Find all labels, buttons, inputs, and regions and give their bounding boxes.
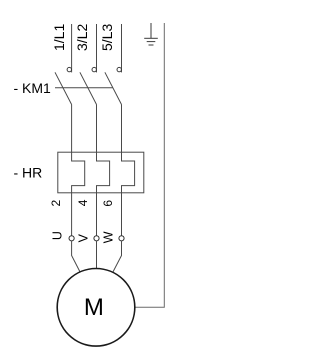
thermal relay HR heater element 1 <box>72 152 85 193</box>
contactor KM1 pole 3 moving blade <box>105 72 122 104</box>
contactor KM1 pole 2 moving blade <box>80 72 97 104</box>
wire L1 top <box>71 24 73 72</box>
contactor KM1 pole 1 moving blade <box>55 72 72 104</box>
wire L3 middle <box>121 105 123 153</box>
wire L2 top <box>96 24 98 72</box>
svg-text:W: W <box>101 231 115 243</box>
svg-text:4: 4 <box>76 199 90 206</box>
wire L2 lower <box>96 193 98 236</box>
wire U to motor <box>72 241 80 272</box>
contactor KM1 pole 3 fixed contact <box>117 67 121 71</box>
motor terminal U <box>69 236 74 241</box>
svg-text:V: V <box>76 233 90 242</box>
svg-text:5/L3: 5/L3 <box>99 24 115 51</box>
ground <box>144 23 158 45</box>
svg-text:6: 6 <box>101 200 115 207</box>
wire V to motor <box>96 241 98 269</box>
motor M1 body <box>57 269 135 347</box>
motor terminal W <box>119 236 124 241</box>
svg-text:2: 2 <box>49 200 63 207</box>
thermal relay HR heater element 3 <box>122 152 135 193</box>
wire PE right <box>135 23 164 307</box>
svg-text:1/L1: 1/L1 <box>51 24 67 51</box>
wire L1 middle <box>71 105 73 153</box>
wire L1 lower <box>71 193 73 236</box>
svg-text:3/L2: 3/L2 <box>74 24 90 51</box>
thermal relay HR body <box>58 152 144 193</box>
wire L2 middle <box>96 105 98 153</box>
thermal relay HR heater element 2 <box>97 152 110 193</box>
contactor KM1 mechanical linkage <box>55 87 113 89</box>
svg-text:U: U <box>50 231 64 240</box>
contactor KM1 pole 1 fixed contact <box>67 67 71 71</box>
svg-text:- KM1: - KM1 <box>14 80 52 96</box>
svg-text:M: M <box>84 294 104 321</box>
svg-text:- HR: - HR <box>14 164 43 180</box>
motor terminal V <box>94 236 99 241</box>
contactor KM1 pole 2 fixed contact <box>92 67 96 71</box>
wire W to motor <box>113 241 122 272</box>
wire L3 lower <box>121 193 123 236</box>
wire L3 top <box>121 24 123 72</box>
